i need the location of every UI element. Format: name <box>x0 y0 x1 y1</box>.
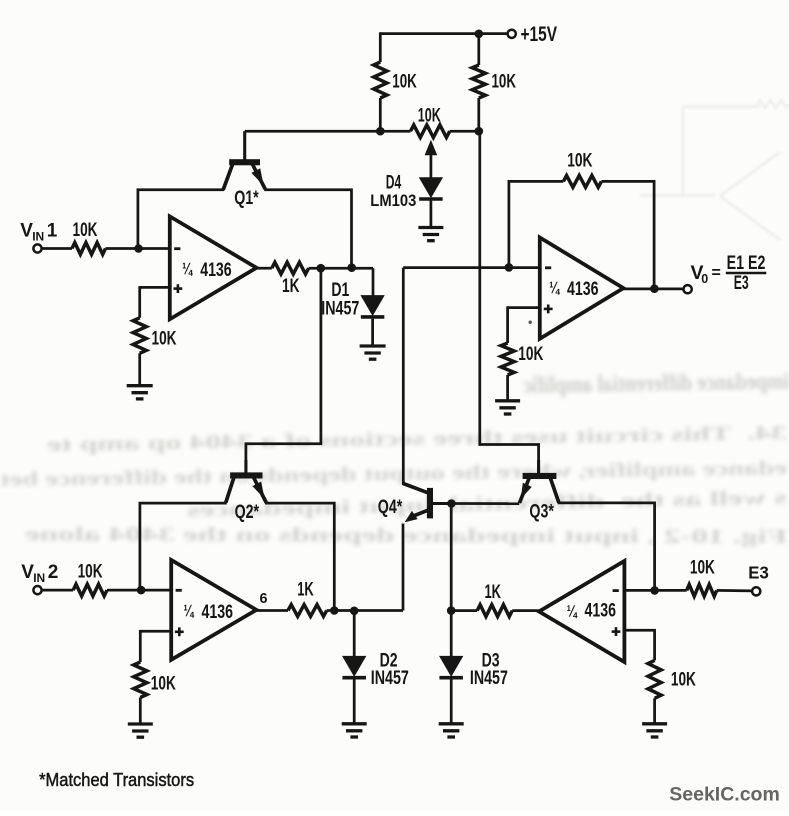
svg-text:¼: ¼ <box>549 278 560 297</box>
svg-text:10K: 10K <box>518 344 543 365</box>
svg-text:SeekIC.com: SeekIC.com <box>669 784 780 806</box>
svg-text:10K: 10K <box>690 558 715 579</box>
svg-text:2: 2 <box>48 562 59 583</box>
svg-text:IN457: IN457 <box>371 668 409 689</box>
svg-text:IN: IN <box>33 571 45 585</box>
svg-text:impedance differential amplifi: impedance differential amplific <box>523 369 789 399</box>
svg-text:10K: 10K <box>152 328 177 349</box>
svg-text:10K: 10K <box>151 674 176 695</box>
svg-text:4136: 4136 <box>585 599 617 621</box>
svg-text:10K: 10K <box>671 670 696 691</box>
svg-text:E1 E2: E1 E2 <box>727 253 766 274</box>
svg-text:Q2*: Q2* <box>235 502 260 523</box>
svg-text:¼: ¼ <box>184 601 195 620</box>
svg-text:LM103: LM103 <box>370 191 416 210</box>
svg-text:4136: 4136 <box>567 278 599 300</box>
svg-text:E3: E3 <box>734 273 749 294</box>
svg-text:6: 6 <box>260 590 268 607</box>
svg-text:1K: 1K <box>282 276 300 297</box>
svg-text:IN457: IN457 <box>470 668 508 689</box>
svg-text:10K: 10K <box>392 72 417 93</box>
svg-text:+15V: +15V <box>521 23 558 46</box>
svg-text:¼: ¼ <box>567 601 578 620</box>
svg-text:IN457: IN457 <box>321 299 359 320</box>
svg-text:IN: IN <box>32 230 44 244</box>
svg-text:=: = <box>712 265 721 282</box>
svg-text:Q3*: Q3* <box>529 502 554 523</box>
svg-text:Q4*: Q4* <box>378 497 403 518</box>
svg-text:1: 1 <box>47 221 58 242</box>
svg-text:*Matched Transistors: *Matched Transistors <box>39 769 194 790</box>
svg-text:0: 0 <box>701 272 708 286</box>
svg-text:4136: 4136 <box>200 259 232 281</box>
svg-text:1K: 1K <box>485 582 502 603</box>
svg-text:10K: 10K <box>492 72 517 93</box>
svg-text:10K: 10K <box>418 106 441 127</box>
svg-text:10K: 10K <box>78 562 103 583</box>
svg-text:1K: 1K <box>297 580 314 601</box>
svg-text:Q1*: Q1* <box>234 188 259 209</box>
svg-text:¼: ¼ <box>182 259 193 278</box>
svg-text:10K: 10K <box>73 220 98 241</box>
svg-text:10K: 10K <box>567 151 592 172</box>
svg-text:E3: E3 <box>748 563 769 583</box>
svg-text:4136: 4136 <box>202 601 234 623</box>
